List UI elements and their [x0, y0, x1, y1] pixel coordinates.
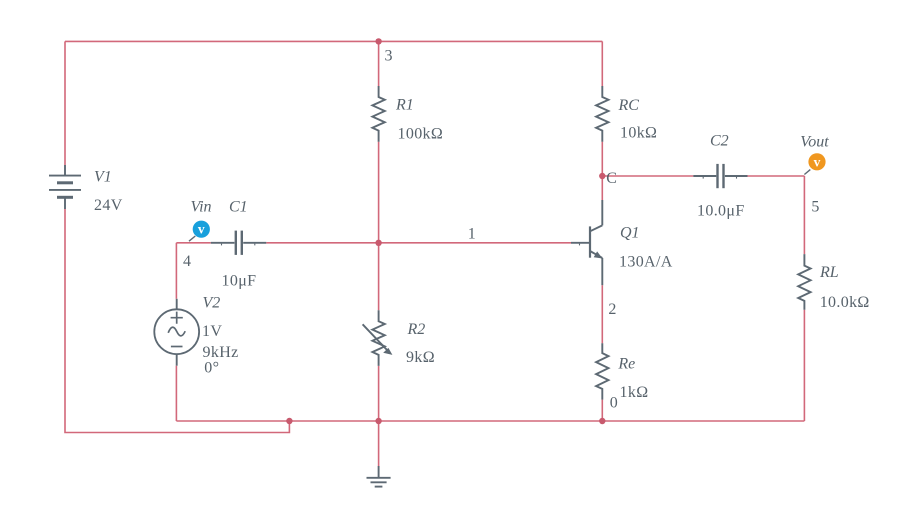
junction node C — [599, 173, 605, 179]
svg-text:C1: C1 — [229, 199, 248, 216]
wire V1 bottom loop — [65, 209, 289, 433]
pin tick C2 left — [702, 177, 704, 179]
resistor R1 — [372, 86, 384, 142]
svg-text:R2: R2 — [407, 321, 426, 338]
wire C2 to Vout corner — [748, 175, 805, 177]
resistor RL — [798, 254, 810, 310]
svg-text:1: 1 — [468, 225, 476, 242]
wire emitter to Re — [601, 285, 603, 343]
wire top rail right — [379, 40, 603, 42]
transistor Q1 — [571, 200, 603, 285]
svg-text:4: 4 — [183, 253, 191, 270]
svg-text:1kΩ: 1kΩ — [620, 384, 649, 401]
svg-text:2: 2 — [608, 301, 616, 318]
battery V1 — [49, 165, 81, 209]
svg-text:Vin: Vin — [191, 199, 212, 216]
wire V1 top lead — [64, 41, 66, 165]
svg-text:C: C — [606, 170, 617, 187]
svg-text:0: 0 — [610, 394, 618, 411]
capacitor C1 — [211, 231, 266, 255]
svg-text:10μF: 10μF — [222, 272, 257, 289]
resistor RC — [596, 86, 608, 142]
svg-text:130A/A: 130A/A — [619, 253, 673, 270]
wire RL top — [803, 176, 805, 254]
pin tick Q1 base — [579, 244, 581, 246]
probe Vout — [804, 153, 825, 174]
wire R2 bottom — [378, 366, 380, 421]
wire collector — [601, 176, 603, 200]
svg-text:3: 3 — [385, 47, 393, 64]
pin tick C1 right — [254, 244, 256, 246]
svg-text:10kΩ: 10kΩ — [620, 124, 657, 141]
svg-text:9kHz: 9kHz — [203, 344, 239, 361]
svg-text:RL: RL — [819, 264, 839, 281]
svg-text:9kΩ: 9kΩ — [406, 349, 435, 366]
svg-text:C2: C2 — [710, 133, 729, 150]
wire ground stem — [378, 421, 380, 466]
svg-text:RC: RC — [618, 97, 640, 114]
wire V2 bottom — [175, 366, 177, 421]
pin tick C2 right — [736, 177, 738, 179]
svg-text:5: 5 — [811, 198, 819, 215]
junction node 3 — [375, 38, 381, 44]
junction node 1 — [375, 240, 381, 246]
svg-text:Q1: Q1 — [620, 225, 640, 242]
svg-text:10.0kΩ: 10.0kΩ — [820, 294, 870, 311]
pin tick C1 left — [221, 244, 223, 246]
junction bottom Re — [599, 418, 605, 424]
wire Re bottom — [601, 400, 603, 421]
capacitor C2 — [693, 164, 747, 188]
svg-text:1V: 1V — [202, 323, 222, 340]
resistor R2 (variable) — [363, 310, 393, 366]
svg-text:R1: R1 — [395, 97, 414, 114]
svg-text:v: v — [198, 222, 205, 237]
wire top rail left — [65, 40, 379, 42]
wire RC top — [601, 41, 603, 86]
junction bottom ground — [375, 418, 381, 424]
probe Vin — [189, 221, 210, 242]
svg-text:0°: 0° — [204, 360, 219, 377]
wire Vin vertical to V2 — [175, 243, 177, 299]
wire node C to C2 — [602, 175, 693, 177]
svg-text:100kΩ: 100kΩ — [398, 125, 444, 142]
svg-text:10.0μF: 10.0μF — [697, 203, 745, 220]
source V2 — [154, 299, 199, 366]
wire bottom rail — [176, 420, 804, 422]
wire R2 top — [378, 243, 380, 310]
resistor Re — [596, 343, 608, 399]
wire base rail right of C1 — [266, 242, 571, 244]
wire base rail left of C1 — [176, 242, 210, 244]
wire R1 top — [378, 41, 380, 86]
wire R1 bottom to base rail — [378, 142, 380, 243]
svg-text:24V: 24V — [94, 197, 123, 214]
svg-text:V2: V2 — [203, 295, 221, 312]
wire RC bottom to node C — [601, 142, 603, 176]
junction bottom V1 — [286, 418, 292, 424]
svg-text:Vout: Vout — [800, 133, 829, 150]
svg-text:v: v — [814, 154, 821, 169]
svg-text:V1: V1 — [94, 169, 112, 186]
svg-text:Re: Re — [617, 356, 635, 373]
ground — [367, 466, 391, 487]
wire RL bottom — [803, 310, 805, 421]
